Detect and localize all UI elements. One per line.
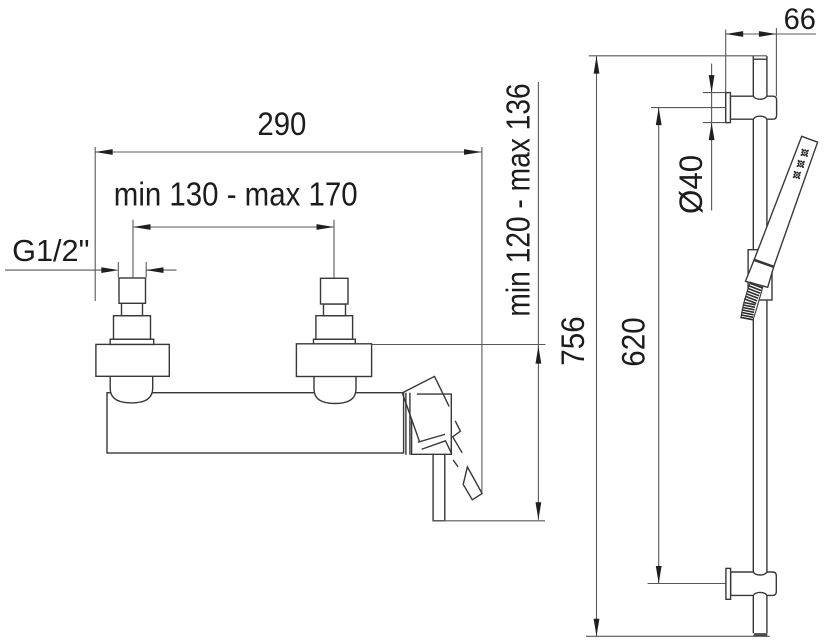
cartridge block	[412, 394, 452, 454]
dim 620 line	[658, 108, 660, 584]
dim 756 line	[596, 56, 598, 636]
dim 620 bottom extension	[648, 583, 726, 585]
rail right line	[766, 56, 768, 633]
dim 290 line	[95, 151, 481, 153]
hose outline	[741, 282, 763, 319]
svg-text:290: 290	[257, 106, 306, 142]
dim 66 line	[726, 33, 816, 35]
svg-text:Ø40: Ø40	[673, 155, 709, 214]
svg-text:66: 66	[784, 3, 816, 36]
right inlet washer	[314, 339, 356, 344]
left inlet dome	[110, 376, 153, 403]
dim O40 top extension	[703, 92, 726, 94]
cone shoulder thick	[754, 260, 774, 267]
dim 66 right extension	[775, 28, 777, 96]
top bracket body	[730, 96, 776, 119]
right inlet dome	[314, 376, 356, 403]
dim O40 bottom extension	[703, 122, 726, 124]
bottom bracket flange	[726, 568, 731, 599]
spray hole cluster 2	[797, 160, 805, 168]
right inlet nut	[316, 316, 353, 340]
arrow G1/2 left	[101, 267, 119, 273]
svg-text:620: 620	[616, 317, 652, 366]
arrow min130 left	[133, 224, 151, 230]
right inlet G1/2 square	[321, 278, 349, 304]
dim min130 right extension	[333, 220, 335, 278]
body end ring	[405, 393, 407, 454]
dim 756 bottom extension	[586, 635, 770, 637]
dim 756 top extension / rail top line	[589, 55, 767, 57]
arrow O40 down	[709, 75, 715, 93]
arrow 620 up	[656, 108, 662, 126]
dim 66 left extension	[725, 30, 727, 93]
lever rotated square	[402, 376, 449, 441]
arrow 756 down	[594, 619, 600, 637]
handshower cone	[746, 260, 774, 287]
dim 620 top extension	[651, 107, 726, 109]
spray hole cluster 3	[793, 171, 801, 179]
left inlet G1/2 square	[119, 278, 146, 303]
rail left line	[752, 56, 754, 633]
svg-text:G1/2": G1/2"	[12, 233, 89, 268]
left inlet flange	[96, 344, 169, 376]
svg-text:min 120 - max 136: min 120 - max 136	[500, 83, 537, 316]
min120 bottom extension	[433, 520, 545, 522]
min120 top extension	[372, 344, 546, 346]
rail end cap	[753, 633, 767, 636]
slider bracket	[748, 250, 772, 300]
dim min130 left extension	[132, 220, 134, 278]
arrow 66 left	[726, 31, 744, 37]
lever chevron	[453, 421, 462, 452]
svg-text:min 130 - max 170: min 130 - max 170	[114, 176, 358, 213]
left inlet nut	[114, 316, 151, 340]
lever hub lines	[419, 435, 458, 467]
left inlet washer	[110, 339, 154, 344]
arrow 290 left	[95, 149, 113, 155]
mixer body	[107, 393, 404, 453]
G1/2 right tail	[146, 269, 177, 271]
arrow min130 right	[317, 224, 335, 230]
dim min130-max170 line	[133, 226, 334, 228]
arrow 756 up	[594, 56, 600, 74]
arrow 290 right	[464, 149, 482, 155]
arrow O40 up	[709, 123, 715, 141]
spray hole cluster 1	[801, 149, 809, 157]
handshower stick	[754, 136, 818, 266]
lever rod	[463, 467, 482, 500]
arrow 620 down	[656, 566, 662, 584]
arrow 66 right	[759, 31, 777, 37]
dim 290 right extension	[481, 147, 483, 494]
left inlet stem	[122, 303, 143, 315]
top bracket flange	[726, 93, 731, 123]
arrow G1/2 right	[146, 267, 164, 273]
dim min120-max136 line	[537, 82, 539, 520]
rail top cap line	[753, 58, 767, 60]
arrow min120 down	[536, 502, 542, 520]
arrow min120 up	[536, 346, 542, 364]
hose ribs	[750, 283, 762, 288]
svg-text:756: 756	[555, 316, 591, 365]
right inlet flange	[296, 344, 371, 377]
dim O40 leader	[711, 64, 713, 211]
bottom bracket body	[731, 572, 777, 595]
right inlet stem	[324, 304, 346, 316]
G1/2 extension ticks	[117, 262, 119, 278]
dim 290 left extension	[94, 147, 96, 301]
G1/2 leader line	[5, 269, 106, 271]
outlet pipe	[433, 454, 445, 521]
